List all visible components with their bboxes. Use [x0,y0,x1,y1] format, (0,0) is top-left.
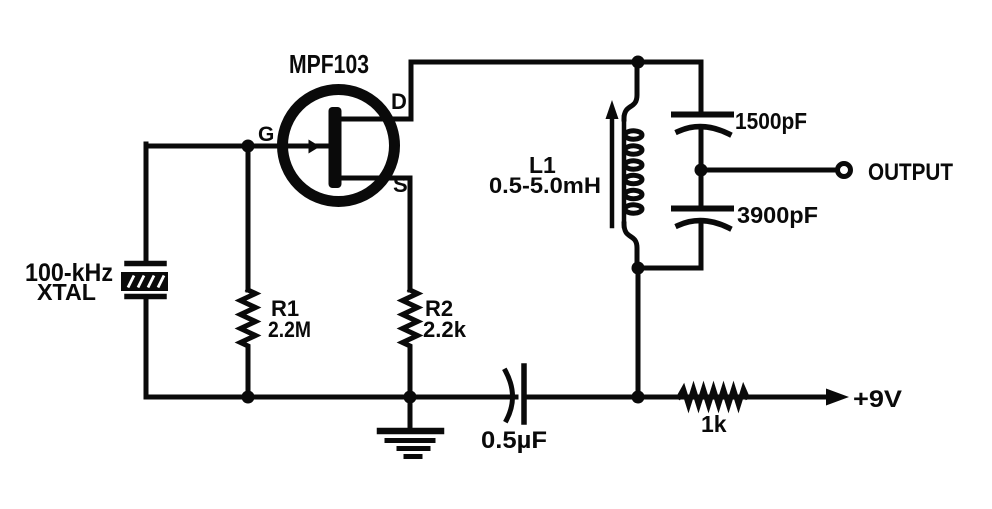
svg-text:MPF103: MPF103 [289,49,369,79]
ground symbol [380,397,441,457]
label 2.2M value [268,317,311,342]
junction node R1/rail [242,391,255,404]
junction node tank bottom [632,262,645,275]
wire output lead [701,168,837,173]
wire source lead Q1 down to R2 [341,178,410,290]
inductor L1 tuning arrow [606,100,619,226]
label 0.5-5.0mH value [489,173,601,198]
transistor Q1 MPF103 body circle [283,90,395,202]
label OUTPUT [868,159,953,186]
resistor R2 zigzag [403,290,418,350]
label L1 [529,152,556,178]
wire bottom rail right of coupling cap [524,395,832,400]
svg-text:0.5-5.0mH: 0.5-5.0mH [489,173,601,198]
wire R2 bottom to rail [408,350,413,397]
capacitor C1 1500pF top plate [674,112,731,118]
label 2.2k value [423,317,467,342]
wire 3900pF to bottom tank node [638,225,701,268]
label 100-kHz [25,259,113,287]
transistor Q1 gate arrowhead [309,140,321,154]
svg-text:D: D [391,89,407,114]
wire capacitor branch top [699,62,704,111]
label S pin [393,172,408,197]
wire R1 branch [246,146,251,397]
junction node top rail/L1 [632,56,645,69]
label D pin [391,89,407,114]
label R2 [425,296,453,321]
label MPF103 [289,49,369,79]
svg-text:2.2k: 2.2k [423,317,467,342]
resistor R1 zigzag [241,290,256,350]
wire crystal bottom to ground rail [146,299,516,397]
svg-text:XTAL: XTAL [37,279,96,305]
crystal XTAL top plate [127,261,164,267]
junction node L1/rail [632,391,645,404]
svg-text:2.2M: 2.2M [268,317,311,342]
transistor Q1 channel bar [329,107,342,188]
label 1k value [701,411,727,437]
wire drain lead Q1 up to top rail [341,64,411,119]
wire between 1500pF and 3900pF [699,129,704,205]
output terminal circle [838,164,851,177]
label +9V [853,386,902,413]
wire left vertical gate to crystal top [144,144,149,261]
svg-text:OUTPUT: OUTPUT [868,159,953,186]
label XTAL [37,279,96,305]
label R1 [271,296,299,321]
svg-text:S: S [393,172,408,197]
label 1500pF value [735,108,807,134]
capacitor C3 0.5uF straight plate [521,366,527,422]
wire gate lead from crystal node [146,144,330,149]
crystal XTAL hatched body [121,272,168,291]
crystal XTAL bottom plate [127,294,164,300]
label 0.5uF value [481,427,547,454]
label G pin [258,123,274,146]
svg-text:3900pF: 3900pF [737,202,818,228]
svg-text:G: G [258,123,274,146]
junction node gate/R1 [242,140,255,153]
svg-text:+9V: +9V [853,386,902,413]
junction node output tap [695,164,708,177]
resistor R3 1k zigzag [679,389,747,405]
junction node R2/ground rail [404,391,417,404]
svg-text:1500pF: 1500pF [735,108,807,134]
svg-text:1k: 1k [701,411,727,437]
wire top rail (drain to tank circuit) [411,60,701,65]
capacitor C2 3900pF top plate [674,206,731,212]
capacitor C1 1500pF curved plate [678,127,729,134]
capacitor C3 0.5uF curved plate [506,371,513,420]
supply arrowhead +9V [826,389,849,406]
capacitor C2 3900pF curved plate [678,221,729,228]
inductor L1 coil [624,62,642,268]
svg-text:0.5µF: 0.5µF [481,427,547,454]
label 3900pF value [737,202,818,228]
wire L1 branch down to rail [636,268,641,397]
